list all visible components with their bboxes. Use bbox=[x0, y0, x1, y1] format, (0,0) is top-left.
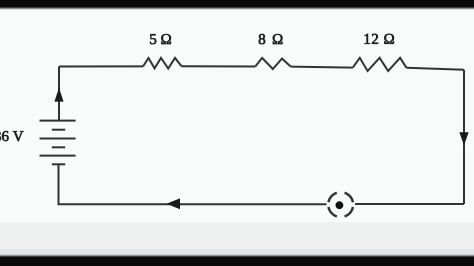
current arrow up (left wire) bbox=[54, 88, 63, 102]
battery B1 plates bbox=[40, 121, 76, 165]
wire top-left segment bbox=[59, 65, 143, 67]
wire left vertical (battery positive to top-left corner) bbox=[58, 67, 60, 121]
label 8 ohm bbox=[259, 34, 265, 44]
meter M1 center dot bbox=[336, 201, 344, 209]
resistor R2 8 ohm zigzag bbox=[255, 58, 290, 69]
current arrow left (bottom wire) bbox=[166, 198, 180, 209]
wire right vertical bbox=[463, 70, 465, 204]
label 36 V bbox=[0, 131, 1, 141]
wire top-right segment bbox=[407, 68, 465, 70]
letterbox bar top bbox=[0, 0, 474, 7]
label 5 ohm bbox=[150, 34, 156, 44]
wire bottom right segment (corner to meter) bbox=[355, 203, 464, 205]
player shade band bottom bbox=[0, 222, 474, 257]
meter M1 circle arcs bbox=[328, 193, 353, 217]
current arrow down (right wire) bbox=[459, 132, 468, 145]
wire between R1 and R2 bbox=[182, 65, 256, 67]
label 12 ohm bbox=[365, 34, 370, 44]
wire between R2 and R3 bbox=[291, 67, 353, 68]
resistor R1 5 ohm zigzag bbox=[143, 58, 182, 69]
resistor R3 12 ohm zigzag bbox=[353, 58, 407, 71]
letterbox bar bottom bbox=[0, 254, 474, 255]
wire bottom left segment (meter to corner) and battery negative stub bbox=[59, 165, 327, 204]
